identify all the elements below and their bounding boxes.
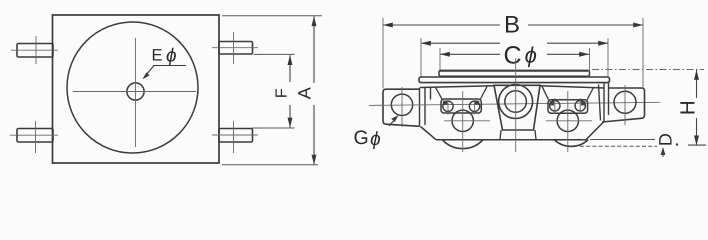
right chain rollers: [550, 101, 586, 111]
svg-text:B: B: [504, 12, 520, 39]
dimension F line: [289, 55, 291, 127]
dimension H line: [696, 70, 698, 145]
left roller housing: [441, 99, 481, 113]
frame right edge lines: [599, 83, 609, 122]
dimension B extension right: [642, 18, 644, 88]
turntable big circle: [67, 22, 198, 153]
svg-text:F: F: [274, 88, 291, 98]
top plate (lower bar): [419, 77, 610, 83]
centerline horizontal of left view: [73, 91, 196, 93]
boss lower verticals: [500, 130, 536, 140]
tab roller bottom-left: [17, 129, 53, 143]
center boss trapezoid: [494, 85, 540, 130]
dim extension x=608: [607, 38, 609, 77]
left lug: [383, 89, 420, 126]
dim extension x=440: [439, 48, 441, 70]
H arrows: [694, 70, 699, 80]
frame left edge lines: [420, 88, 431, 127]
H extension dash-dot line: [592, 69, 704, 71]
tab bottom-right centerlines: [212, 121, 258, 153]
center mark dash: [131, 91, 141, 93]
D dot: [676, 143, 678, 145]
right lug: [602, 88, 645, 122]
tab bottom-left centerlines: [10, 121, 58, 153]
dim extension x=589: [589, 48, 591, 70]
D up arrow below: [662, 148, 664, 157]
left chain rollers: [443, 101, 480, 111]
ground dashed line: [580, 145, 657, 147]
dimension B arrows: [383, 23, 393, 28]
right housing connectors: [542, 86, 594, 100]
dimension line 3 (Cφ disc): [440, 53, 589, 55]
right wheel hub: [557, 110, 578, 131]
right lug centerlines: [624, 85, 626, 125]
main horizontal centerline: [369, 102, 660, 105]
left lug centerlines: [401, 87, 403, 127]
main vertical centerline: [515, 58, 517, 152]
dimension A extension bottom: [222, 164, 318, 166]
label Eφ: [152, 46, 177, 67]
left housing bolt squares: [443, 101, 448, 105]
frame top edge left: [420, 86, 494, 88]
svg-text:D: D: [655, 133, 675, 146]
center hole small circle Eφ: [127, 83, 144, 100]
frame bottom-left diagonal: [421, 127, 437, 140]
leader line for Eφ: [144, 66, 187, 79]
right housing centerlines: [546, 91, 592, 152]
left lug hole Gφ: [391, 94, 412, 115]
left housing centerlines: [444, 91, 490, 152]
dimension F arrows: [288, 55, 293, 65]
F extension line bottom: [252, 127, 295, 129]
svg-text:A: A: [294, 87, 314, 99]
dimension B extension left: [382, 18, 384, 89]
svg-text:Cϕ: Cϕ: [504, 42, 537, 70]
dimension line 2 (plate width): [421, 42, 608, 44]
left wheel hub: [452, 110, 473, 131]
tab roller top-right: [219, 42, 253, 55]
Gφ leader arrowhead: [391, 115, 398, 122]
tab top-right centerlines: [212, 32, 258, 64]
dim extension x=421: [420, 38, 422, 77]
Gφ leader: [389, 117, 397, 126]
left wheel arc below frame: [442, 140, 483, 149]
right housing bolt squares: [550, 101, 555, 105]
dimension B line: [383, 24, 643, 26]
frame top edge right: [540, 86, 604, 88]
dimension A line: [313, 16, 315, 164]
turntable disc (upper bar): [439, 71, 590, 77]
right wheel arc below frame: [554, 140, 588, 147]
right lug hole: [614, 91, 636, 113]
leader arrowhead Eφ: [143, 72, 150, 79]
centerline vertical of left view: [135, 38, 137, 147]
F extension line top: [254, 53, 295, 55]
boss inner circle: [505, 91, 527, 113]
body square outline: [53, 15, 220, 163]
H bottom tick: [688, 144, 706, 146]
svg-text:Eϕ: Eϕ: [152, 46, 177, 67]
svg-text:Gϕ: Gϕ: [354, 127, 381, 150]
right roller housing: [548, 100, 588, 113]
dimension A extension top: [222, 15, 322, 17]
tab top-left centerlines: [11, 36, 58, 64]
frame bottom line: [436, 139, 586, 141]
frame bottom-right diagonal: [586, 122, 604, 140]
left housing connectors: [436, 87, 488, 100]
dimension A arrows: [312, 16, 317, 26]
tab roller top-left: [17, 44, 53, 58]
boss outer circle: [499, 85, 533, 119]
tab roller bottom-right: [219, 129, 253, 143]
D extension solid line: [590, 139, 655, 141]
svg-text:H: H: [676, 100, 699, 115]
